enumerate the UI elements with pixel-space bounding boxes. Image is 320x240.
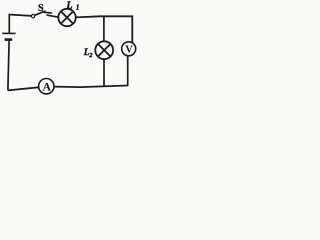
svg-text:1: 1 [76,4,80,12]
lamp L1 cross [61,11,73,23]
svg-text:A: A [43,82,52,94]
voltmeter V circle [122,42,136,56]
wire: lamp L2 bottom stub [103,59,105,87]
wire: L1 to top right corner, down to voltmeter [76,16,133,43]
wire: bottom left vertical up to battery [8,40,9,90]
wire: junction drop to lamp L2 [103,16,105,41]
wire: bottom right horizontal [54,86,128,88]
battery positive long plate [2,32,15,34]
ammeter A circle [39,79,54,94]
svg-text:2: 2 [88,52,93,59]
svg-text:S: S [38,3,44,14]
svg-text:V: V [125,45,133,56]
switch S fixed contact [44,11,52,14]
wire: voltmeter bottom stub [127,56,129,86]
svg-text:L: L [65,0,72,11]
lamp L1 circle [58,9,75,26]
switch S terminal circle [31,14,34,17]
wire: switch to lamp L1 [47,15,59,17]
wire: battery top vertical [8,14,10,33]
wire: top left horizontal to switch [9,15,32,16]
lamp L2 circle [95,41,113,59]
lamp L2 cross [98,44,111,57]
wire: bottom left horizontal [8,87,39,90]
switch S blade [35,11,46,15]
battery negative short plate [5,38,13,41]
